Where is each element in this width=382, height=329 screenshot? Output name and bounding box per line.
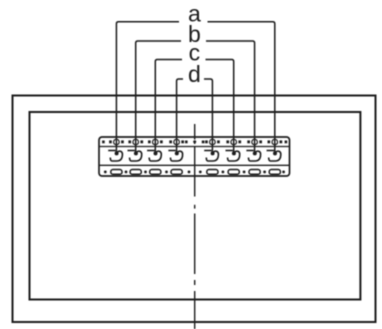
terminal 5 spring clamp hook xyxy=(204,150,211,152)
label b bracket left wire xyxy=(136,41,181,153)
terminal 1 screw marks xyxy=(109,140,112,143)
terminal 8 bottom slot xyxy=(269,170,280,175)
label b bracket right wire xyxy=(206,41,255,153)
terminal 4 bottom slot xyxy=(171,170,182,175)
bottom band rivet dots xyxy=(104,171,107,174)
terminal 2 spring clamp hook xyxy=(128,150,135,152)
terminal 2 screw marks xyxy=(128,140,131,143)
terminal 1 spring clamp hook xyxy=(108,150,115,152)
terminal 3 bottom slot xyxy=(150,170,161,175)
label c bracket right wire xyxy=(206,60,234,154)
terminal 8 spring clamp hook xyxy=(267,150,274,152)
gap marks in top band xyxy=(185,141,188,144)
terminal 7 bottom slot xyxy=(249,170,260,175)
terminal 8 screw marks xyxy=(268,140,271,143)
terminal 7 spring clamp hook xyxy=(246,150,253,152)
label d bracket left wire xyxy=(177,79,183,153)
terminal strip lower divider line xyxy=(99,164,290,166)
terminal 5 screw marks xyxy=(205,140,208,143)
terminal 6 bottom slot xyxy=(228,170,239,175)
terminal 6 screw marks xyxy=(226,140,229,143)
label d bracket right wire xyxy=(204,79,212,153)
center dash-dot line xyxy=(194,124,196,140)
terminal 4 screw marks xyxy=(169,140,172,143)
label c bracket left wire xyxy=(155,60,182,154)
terminal 6 spring clamp hook xyxy=(226,150,233,152)
strip top band end dots xyxy=(102,141,105,144)
terminal 2 bottom slot xyxy=(130,170,141,175)
inner enclosure box xyxy=(30,112,361,300)
terminal 5 bottom slot xyxy=(207,170,218,175)
svg-text:d: d xyxy=(188,61,201,87)
terminal 7 screw marks xyxy=(247,140,250,143)
outer enclosure box xyxy=(13,96,376,323)
center screw-band dot xyxy=(193,140,196,143)
terminal 3 screw marks xyxy=(148,140,151,143)
label a bracket right wire xyxy=(208,22,275,154)
label a bracket left wire xyxy=(116,22,179,154)
terminal strip upper divider line xyxy=(99,146,290,148)
terminal 3 spring clamp hook xyxy=(147,150,154,152)
terminal 4 spring clamp hook xyxy=(168,150,175,152)
terminal 1 bottom slot xyxy=(111,170,122,175)
terminal strip body xyxy=(99,137,290,176)
